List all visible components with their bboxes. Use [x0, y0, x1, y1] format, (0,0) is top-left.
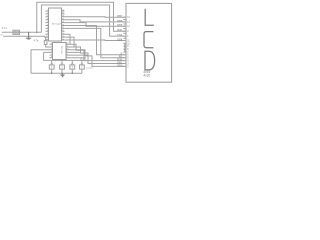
ground symbol bottom — [60, 73, 64, 77]
svg-text:4.7k: 4.7k — [34, 39, 40, 43]
push button S2 — [60, 65, 65, 69]
svg-text:ATmega8: ATmega8 — [52, 22, 62, 25]
resistor R1 4.7k — [44, 41, 47, 45]
wire: R1 bottom to U2 — [46, 45, 50, 48]
wire: U2 right stub row4 — [69, 51, 80, 53]
MCU pin numbers — [46, 10, 65, 41]
wire: VCC rail from left supply to MCU — [2, 31, 42, 33]
LCD letter L — [145, 9, 154, 25]
svg-text:VSS: VSS — [117, 33, 122, 37]
wire: U2 to LCD D1 — [69, 47, 126, 64]
svg-text:DB0: DB0 — [117, 63, 123, 67]
junction dots — [28, 32, 73, 74]
wire: U2 lower right stub — [69, 57, 86, 59]
wire: tie on unconnected data pins — [124, 43, 126, 52]
LCD letter C — [144, 32, 153, 48]
wire: outer loop (GND) over MCU to LCD — [37, 2, 126, 32]
MCU U1 left pins — [46, 11, 49, 40]
svg-text:DB7: DB7 — [117, 14, 123, 18]
wire: MCU pin to LCD E — [65, 26, 127, 55]
U2 right pins — [66, 44, 69, 58]
tiny text smudges — [0, 22, 150, 77]
wire: U2 right stub row5 — [69, 54, 88, 56]
MCU U1 right pins — [62, 11, 65, 40]
wire: button bus — [44, 52, 87, 60]
push button S4 — [80, 65, 85, 69]
U2 left pins — [50, 44, 53, 58]
wire: MCU lower pin to U2 row1 — [65, 34, 71, 44]
LCD letter D — [145, 51, 155, 70]
MCU U1 body — [49, 8, 62, 41]
svg-text:4x20: 4x20 — [143, 74, 150, 78]
push button S1 — [49, 65, 54, 69]
wire: U2 left pin to ground rail — [31, 50, 50, 73]
wire: MCU pin to LCD RS — [65, 28, 127, 57]
svg-text:a button: a button — [86, 66, 93, 69]
wire: inner loop (VCC) over MCU to LCD — [41, 5, 126, 36]
wire: U2 to LCD RW — [69, 44, 126, 60]
ground symbol left — [26, 32, 31, 39]
wire: MCU pin to LCD D6 — [65, 20, 127, 22]
svg-text:pb out: pb out — [80, 57, 86, 60]
supply connector J1 — [13, 30, 20, 34]
svg-text:DB4: DB4 — [117, 37, 123, 41]
svg-text:74HC164: 74HC164 — [61, 45, 63, 55]
LCD connected pin stubs — [123, 17, 126, 66]
wire: MCU pin to LCD D5 — [65, 23, 127, 27]
wire: MCU pin to LCD D4 — [65, 39, 127, 42]
wire: bottom ground rail — [31, 72, 82, 74]
U2 pin numbers — [51, 43, 69, 59]
svg-text:DB6: DB6 — [117, 19, 123, 23]
svg-text:DB5: DB5 — [117, 23, 123, 27]
svg-text:5.0 V: 5.0 V — [2, 28, 8, 30]
wire: MCU pin to LCD D7 — [65, 16, 127, 19]
LCD unconnected pin stubs — [123, 20, 126, 53]
LCD pin labels — [117, 14, 123, 67]
wire: R1 top to MCU pin — [45, 37, 47, 40]
wire: U2 to LCD D0 — [69, 50, 126, 67]
wire: GND rail from left supply to MCU — [3, 35, 45, 38]
svg-text:VDD: VDD — [117, 28, 123, 32]
push button S3 — [70, 65, 75, 69]
LCD pin numbers inside box — [127, 17, 130, 68]
wire: MCU lower pin to U2 row2 — [65, 37, 75, 47]
IC U2 body — [53, 43, 67, 60]
LCD module box — [126, 3, 172, 82]
